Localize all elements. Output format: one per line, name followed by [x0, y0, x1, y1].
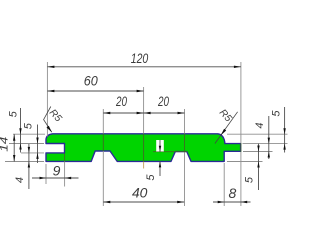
dimension 5 (bottom middle, groove depth step)	[145, 140, 164, 181]
svg-text:9: 9	[53, 163, 61, 179]
extension line over board: tongue bottom level (middle)	[153, 151, 187, 153]
extension line at first bottom groove (x=103.3)	[102, 109, 104, 206]
dimension 40 (bottom, groove1 to groove2)	[103, 185, 184, 204]
extension line below groove wall (x=64.6)	[64, 154, 66, 187]
svg-text:5: 5	[244, 176, 256, 183]
dimension 120 (overall width, top)	[47, 50, 241, 68]
svg-text:4: 4	[14, 177, 26, 183]
svg-text:40: 40	[132, 185, 148, 201]
extension line at second bottom groove (x=184.5)	[184, 109, 186, 206]
svg-text:14: 14	[0, 137, 11, 152]
svg-text:5: 5	[271, 110, 283, 117]
svg-text:60: 60	[84, 73, 98, 89]
svg-text:5: 5	[7, 110, 19, 117]
svg-text:20: 20	[115, 93, 127, 109]
svg-text:5: 5	[145, 174, 157, 181]
dimension 4 (right, tongue thickness)	[254, 116, 270, 159]
radius label R5 (top left corner) with leader	[44, 107, 64, 133]
dimension 5 (right, board top to tongue top)	[271, 107, 286, 153]
extension line left: board top level	[13, 133, 45, 135]
svg-text:8: 8	[229, 185, 237, 201]
extension line right: tongue top level	[243, 143, 288, 145]
dimension 5 (left, top to groove top)	[7, 108, 21, 153]
extension line at tongue root step (x=224.2)	[223, 163, 225, 206]
dimension 60 (left edge to middle)	[47, 73, 143, 93]
extension line right: board bottom level	[227, 161, 263, 163]
svg-text:20: 20	[157, 93, 169, 109]
extension line at profile middle (x=143.6)	[143, 87, 145, 169]
dimension 5 (left, groove height)	[23, 122, 39, 163]
radius label R5 (top right corner) with leader	[215, 107, 238, 143]
extension line left: board bottom level	[5, 161, 44, 163]
extension line left: groove top level	[9, 143, 44, 145]
dimension 20 (right, middle to groove2)	[144, 93, 185, 114]
svg-text:5: 5	[23, 122, 35, 129]
svg-text:120: 120	[131, 50, 149, 66]
dimension 5 (right, tongue bottom to board bottom)	[244, 144, 260, 190]
dimension 20 (left, groove1 to middle)	[103, 93, 143, 114]
dimension 9 (groove depth, bottom left)	[32, 163, 79, 180]
dimension 4 (left, groove bottom to board bottom)	[14, 144, 30, 189]
extension line left of 120/60 dims	[46, 62, 48, 137]
extension line right: board top level	[227, 133, 288, 135]
extension line right: tongue bottom level	[243, 151, 273, 153]
board profile cross-section (tongue-and-groove plank, green fill)	[46, 134, 241, 162]
extension line below left edge (x=46)	[45, 164, 47, 184]
svg-text:4: 4	[254, 122, 266, 128]
extension line right of 120 dim / tongue end	[240, 62, 242, 206]
dimension 8 (tongue length, bottom right)	[213, 185, 251, 203]
dimension 14 (board thickness, far left)	[0, 134, 15, 161]
extension line left: groove bottom level	[21, 152, 44, 154]
